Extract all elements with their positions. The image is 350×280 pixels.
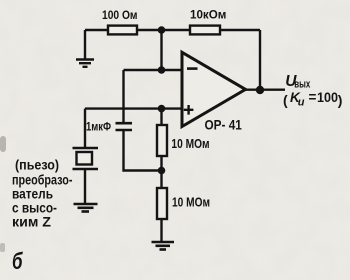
wire: junction to resistor R3	[160, 109, 162, 125]
node A (top junction)	[158, 26, 166, 34]
svg-text:1мкФ: 1мкФ	[86, 122, 111, 134]
resistor R4 10 МОм	[157, 188, 167, 219]
label б (figure letter)	[12, 248, 23, 274]
svg-text:с высо-: с высо-	[12, 201, 57, 216]
wire: R3 to node B	[160, 156, 162, 171]
svg-text:100: 100	[317, 89, 338, 105]
resistor R2 10кОм	[190, 26, 220, 35]
wire: left drop to ground	[84, 30, 86, 59]
label 1мкФ	[86, 122, 111, 134]
label (Ku = 100)	[283, 89, 342, 109]
capacitor C1 1мкФ	[116, 123, 133, 130]
ground G2 (piezo)	[74, 204, 98, 212]
svg-text:OP- 41: OP- 41	[205, 117, 242, 133]
svg-text:б: б	[12, 248, 23, 274]
svg-text:10 МОм: 10 МОм	[171, 136, 209, 151]
svg-text:преобразо-: преобразо-	[12, 173, 73, 188]
op-amp U1 OP-41	[182, 52, 246, 126]
label OP-41	[205, 117, 242, 133]
label Uвых	[285, 73, 311, 91]
svg-text:=: =	[309, 90, 317, 105]
wire: capacitor bottom to node B	[124, 131, 162, 171]
svg-text:(: (	[283, 92, 288, 108]
node on inverting input	[158, 66, 166, 74]
node on non-inverting input	[158, 105, 166, 113]
node B	[158, 167, 166, 175]
wire: piezo to ground	[84, 170, 86, 203]
svg-text:ким Z: ким Z	[12, 214, 51, 229]
wire: feedback from R2 down to output	[259, 30, 261, 90]
wire: node B to resistor R4	[160, 171, 162, 189]
label 10 МОм (upper)	[171, 136, 209, 151]
node: output junction	[256, 86, 264, 94]
label 10 МОм (lower)	[172, 195, 210, 210]
label 10кОм	[190, 10, 226, 22]
piezo transducer X1	[73, 148, 99, 169]
svg-text:100 Ом: 100 Ом	[102, 10, 138, 22]
svg-text:10 МОм: 10 МОм	[172, 195, 210, 210]
op-amp plus sign	[184, 105, 194, 115]
svg-text:u: u	[298, 97, 305, 109]
resistor R3 10 МОм	[157, 125, 167, 156]
wire: drop from inverting line to capacitor	[122, 70, 124, 122]
op-amp minus sign	[187, 67, 198, 70]
wire: node A down to inverting input line	[160, 30, 162, 70]
svg-text:ватель: ватель	[12, 187, 53, 202]
label (пьезо) преобразователь с высоким Z	[12, 158, 73, 230]
wire: top horizontal from left turn to feedback turn	[85, 29, 260, 31]
wire: non-inverting line down to piezo	[84, 109, 86, 147]
wire: inverting input line	[124, 69, 183, 71]
svg-text:): )	[338, 92, 343, 108]
svg-text:10кОм: 10кОм	[190, 10, 226, 22]
wire: non-inverting input line	[85, 107, 182, 109]
label 100 Ом	[102, 10, 138, 22]
wire: R4 to ground	[160, 219, 162, 241]
svg-text:(пьезо): (пьезо)	[15, 158, 59, 173]
resistor R1 100 Ом	[108, 26, 137, 35]
wire: output	[246, 88, 286, 90]
ground G1 (top left)	[76, 60, 94, 67]
ground G3 (bottom)	[152, 242, 175, 250]
